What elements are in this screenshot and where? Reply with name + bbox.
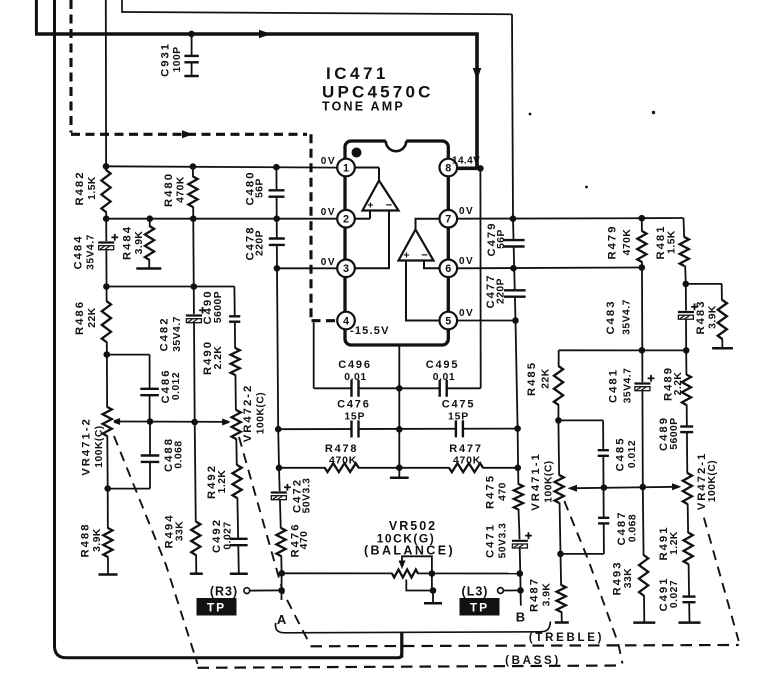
svg-text:0V: 0V: [321, 156, 336, 167]
svg-text:22K: 22K: [87, 307, 98, 327]
svg-text:C476: C476: [337, 399, 371, 411]
svg-text:1.2K: 1.2K: [669, 531, 680, 555]
wire: C490/R490/VR472-2/R492/C492 column: [234, 287, 238, 574]
op-amp U1a: [355, 167, 379, 169]
capacitor C490: [228, 316, 241, 322]
junction: right rail nodes: [639, 347, 646, 354]
svg-text:35V4.7: 35V4.7: [172, 316, 183, 352]
junction: pin5 row node: [512, 317, 519, 324]
svg-text:(BALANCE): (BALANCE): [364, 544, 455, 558]
svg-text:100K(C): 100K(C): [544, 460, 555, 502]
resistor R481: [678, 238, 691, 266]
potentiometer VR472-2: [230, 411, 243, 439]
capacitor C478: [268, 238, 286, 245]
svg-text:35V4.7: 35V4.7: [623, 368, 634, 404]
svg-text:0.068: 0.068: [174, 440, 185, 468]
svg-text:A: A: [277, 612, 287, 627]
svg-text:−: −: [386, 200, 392, 212]
wire: C496/C495 row: [314, 387, 481, 389]
capacitor C480: [268, 190, 286, 197]
svg-text:15P: 15P: [344, 412, 365, 423]
svg-text:3.9K: 3.9K: [708, 305, 719, 329]
svg-text:-15.5V: -15.5V: [350, 325, 390, 337]
potentiometer VR471-1: [553, 476, 566, 503]
svg-text:100K(C): 100K(C): [707, 460, 718, 502]
svg-text:4: 4: [343, 315, 349, 327]
resistor R482: [99, 171, 112, 212]
svg-text:R479: R479: [607, 224, 619, 259]
svg-text:35V4.7: 35V4.7: [86, 234, 97, 270]
junction: pin2 row nodes: [103, 215, 110, 222]
junction: balance row nodes: [279, 570, 286, 577]
svg-text:B: B: [516, 610, 525, 625]
svg-text:470K: 470K: [176, 176, 187, 203]
svg-text:470: 470: [498, 482, 509, 501]
potentiometer VR502: [393, 568, 418, 580]
junction: pin6 row nodes: [510, 265, 517, 272]
svg-text:470: 470: [299, 531, 310, 550]
svg-text:C481: C481: [608, 368, 620, 403]
resistor R489: [680, 375, 693, 405]
junction: wiper row nodes: [147, 418, 154, 425]
wire: center column from IC: [398, 345, 400, 478]
resistor R493: [637, 556, 650, 596]
ground VR502: [424, 602, 442, 605]
svg-text:470K: 470K: [329, 456, 357, 467]
svg-text:50V3.3: 50V3.3: [498, 523, 509, 559]
op-amp U1b: [416, 219, 441, 230]
wire: C487 return row: [561, 553, 604, 555]
svg-text:1.2K: 1.2K: [217, 470, 228, 494]
wire: VR471-2/VR472-2 wiper row: [119, 421, 228, 423]
resistor R480: [186, 177, 199, 207]
junction: test point nodes: [278, 587, 285, 594]
svg-text:100K(C): 100K(C): [94, 425, 105, 467]
svg-text:C471: C471: [485, 523, 497, 558]
svg-text:0.068: 0.068: [628, 514, 639, 542]
IC471 body: [345, 141, 448, 345]
svg-text:2.2K: 2.2K: [213, 346, 224, 370]
junction: C496/C495 row node: [396, 385, 403, 392]
svg-text:0.01: 0.01: [433, 372, 456, 383]
svg-text:−: −: [421, 250, 427, 262]
svg-text:0V: 0V: [459, 308, 474, 319]
svg-text:R477: R477: [449, 443, 483, 455]
wire: A-B link line: [275, 622, 550, 633]
svg-text:(L3): (L3): [462, 585, 489, 599]
junction: pin1 row nodes: [103, 163, 110, 170]
svg-text:1.5K: 1.5K: [87, 176, 98, 200]
capacitor C492: [229, 539, 249, 546]
svg-text:14.4V: 14.4V: [452, 156, 480, 167]
svg-text:IC471: IC471: [326, 64, 389, 83]
capacitor C476: [351, 420, 359, 439]
wire: pin5 row: [457, 320, 516, 322]
svg-text:R481: R481: [655, 224, 667, 259]
dashed BASS bus: [198, 666, 622, 668]
svg-text:100K(C): 100K(C): [256, 392, 267, 434]
junction: right wiper row nodes: [555, 417, 562, 424]
wire: stub joining board edge: [400, 632, 403, 658]
svg-text:0.012: 0.012: [627, 440, 638, 468]
svg-text:22K: 22K: [541, 368, 552, 388]
capacitor C483 (electrolytic): [677, 311, 695, 320]
svg-text:R485: R485: [526, 361, 538, 396]
capacitor C488: [140, 455, 161, 462]
svg-text:VR471-2: VR471-2: [81, 417, 93, 476]
capacitor C481 (electrolytic): [633, 382, 651, 391]
resistor R488: [101, 529, 114, 557]
junction: pin7 row nodes: [510, 215, 517, 222]
wire: R480/C482/R494 column: [193, 167, 196, 574]
svg-text:220P: 220P: [496, 278, 507, 304]
capacitor C472 (electrolytic): [270, 491, 288, 500]
resistor R487: [555, 586, 568, 612]
wire: R485/VR471-1/R487 column: [558, 350, 561, 622]
capacitor C486: [139, 389, 160, 396]
capacitor C491: [682, 596, 697, 602]
svg-text:R487: R487: [529, 577, 541, 612]
svg-text:1.5K: 1.5K: [667, 230, 678, 254]
svg-text:35V4.7: 35V4.7: [622, 299, 633, 335]
wire: left board edge with rounded bottom: [55, 0, 402, 658]
svg-text:6: 6: [445, 263, 451, 275]
arrow on shield line: [182, 130, 193, 138]
svg-text:C492: C492: [211, 518, 223, 553]
capacitor C495: [439, 379, 447, 398]
capacitor C475: [456, 419, 464, 438]
resistor R490: [229, 349, 242, 375]
svg-text:TP: TP: [470, 601, 489, 615]
shield dashed line: [69, 0, 72, 133]
svg-text:R478: R478: [325, 443, 359, 455]
node 14.4V junction: [477, 165, 484, 172]
svg-text:R482: R482: [74, 170, 86, 205]
svg-text:3.9K: 3.9K: [134, 231, 145, 255]
svg-text:R486: R486: [74, 300, 86, 335]
svg-text:2: 2: [343, 214, 349, 226]
VR502 wiper + tap: [402, 556, 432, 590]
resistor R477: [450, 461, 483, 474]
capacitor C471 (electrolytic): [511, 539, 529, 548]
resistor R479: [635, 232, 648, 262]
svg-text:R493: R493: [612, 560, 624, 595]
svg-text:0V: 0V: [321, 207, 336, 218]
svg-text:TP: TP: [207, 601, 226, 615]
svg-text:1: 1: [343, 162, 349, 174]
svg-text:(TREBLE): (TREBLE): [529, 632, 604, 644]
svg-text:5600P: 5600P: [213, 291, 224, 323]
svg-text:0V: 0V: [459, 206, 474, 217]
wire: row y=354.6: [107, 354, 150, 356]
wire: long right vertical: [512, 14, 521, 605]
resistor R491: [682, 533, 695, 564]
wire: pin2 row: [106, 218, 337, 220]
svg-text:C483: C483: [605, 299, 617, 334]
svg-text:(R3): (R3): [210, 585, 238, 599]
svg-text:(BASS): (BASS): [505, 655, 561, 667]
capacitor C484 (electrolytic): [97, 241, 115, 250]
wire: right wiper row: [576, 487, 677, 488]
junction: R478/R477 row nodes: [276, 465, 283, 472]
svg-text:+: +: [367, 200, 373, 212]
capacitor C489: [679, 426, 694, 432]
wire: top-left vertical: [35, 0, 38, 33]
potentiometer VR471-2: [101, 408, 114, 436]
svg-text:5600P: 5600P: [669, 417, 680, 449]
wire: riser x=480 from 14.4V to C495 row: [479, 169, 481, 389]
svg-text:0V: 0V: [321, 257, 336, 268]
wire: C486 branch column: [149, 355, 151, 422]
svg-text:3: 3: [343, 263, 349, 275]
svg-text:0.012: 0.012: [171, 372, 182, 400]
dashed TREBLE bus: [311, 645, 739, 646]
resistor R484: [148, 219, 151, 269]
wire: C476/C475 row: [278, 428, 517, 431]
capacitor C496: [351, 379, 359, 398]
svg-text:15P: 15P: [448, 412, 469, 423]
svg-text:33K: 33K: [623, 568, 634, 588]
resistor R485: [552, 367, 565, 405]
wire: pin6 row: [457, 267, 642, 270]
svg-text:100P: 100P: [172, 46, 183, 72]
wire: pin7 row: [457, 217, 642, 220]
svg-text:C484: C484: [73, 234, 85, 269]
wire: R478/R477 row: [279, 467, 518, 469]
svg-text:56P: 56P: [496, 229, 507, 249]
svg-text:0V: 0V: [459, 256, 474, 267]
wire: R481/C483/R489/VR472-1/R491/C491 column: [684, 218, 690, 623]
svg-text:7: 7: [445, 214, 451, 226]
svg-text:C496: C496: [338, 359, 372, 371]
resistor R483: [721, 284, 724, 348]
svg-text:3.9K: 3.9K: [92, 528, 103, 552]
wire: pin3 row segment: [277, 267, 338, 269]
svg-text:C475: C475: [442, 399, 476, 411]
wire: C485 rail: [558, 419, 603, 421]
svg-text:50V3.3: 50V3.3: [302, 478, 313, 514]
wire: C485/C487 column: [602, 420, 605, 554]
wire: C488 branch column: [149, 422, 151, 489]
IC index dot: [352, 148, 362, 158]
svg-text:5: 5: [445, 315, 451, 327]
wire: R483 branch row: [686, 283, 722, 285]
svg-text:R475: R475: [485, 474, 497, 509]
capacitor C479: [513, 219, 516, 269]
svg-text:C485: C485: [615, 436, 627, 471]
wire: thin top line from x=122: [122, 0, 512, 14]
wire: VR502 row: [282, 572, 520, 574]
svg-text:33K: 33K: [175, 521, 186, 541]
resistor R486: [100, 302, 113, 342]
capacitor C487: [597, 518, 610, 524]
svg-text:VR472-2: VR472-2: [242, 384, 254, 443]
junction: VR502 tap nodes: [429, 570, 436, 577]
svg-text:C931: C931: [160, 42, 172, 77]
wire: main left vertical column: [106, 0, 108, 575]
svg-text:0.01: 0.01: [344, 372, 367, 383]
svg-text:VR471-1: VR471-1: [530, 452, 542, 511]
svg-text:C487: C487: [616, 510, 628, 545]
junction: pin3 row node: [274, 265, 281, 272]
resistor R475: [512, 485, 525, 510]
svg-text:R483: R483: [695, 299, 707, 334]
capacitor C477: [503, 290, 527, 297]
mechanical link VR471-2: [114, 436, 198, 664]
wire: R479/C481/R493 column: [642, 218, 645, 622]
svg-text:0.027: 0.027: [223, 521, 234, 549]
wire: riser x=313: [313, 323, 315, 389]
svg-text:+: +: [403, 250, 409, 262]
svg-text:470K: 470K: [453, 456, 481, 467]
resistor R492: [231, 466, 244, 498]
svg-text:8: 8: [445, 162, 451, 174]
capacitor C931: [188, 31, 195, 38]
svg-text:470K: 470K: [622, 229, 633, 256]
wire: pin7 row extension to R481: [642, 217, 684, 219]
svg-text:220P: 220P: [255, 230, 266, 256]
wire: C480/C478/C472/R476 column: [276, 167, 281, 600]
resistor R494: [189, 522, 202, 555]
mechanical link VR472-2: [239, 437, 311, 645]
svg-text:2.2K: 2.2K: [673, 372, 684, 396]
svg-text:R484: R484: [122, 225, 134, 260]
svg-text:C482: C482: [159, 316, 171, 351]
potentiometer VR472-1: [681, 474, 694, 504]
svg-text:3.9K: 3.9K: [542, 583, 553, 607]
resistor R478: [325, 461, 358, 474]
junction: left feedback rows: [103, 283, 110, 290]
IC pins: [337, 159, 355, 177]
scan specks: [529, 113, 532, 116]
wire: rail y=350: [559, 349, 687, 351]
svg-text:R480: R480: [163, 172, 175, 207]
svg-text:C495: C495: [426, 359, 460, 371]
svg-text:0.027: 0.027: [669, 580, 680, 608]
resistor R476: [274, 529, 287, 556]
wire: pin1 row: [106, 166, 338, 167]
svg-text:56P: 56P: [255, 178, 266, 198]
capacitor C482 (electrolytic): [185, 314, 203, 323]
mechanical link VR471-1: [564, 501, 622, 664]
junction: C476/C475 row nodes: [275, 426, 282, 433]
IC notch: [386, 139, 406, 151]
svg-text:TONE AMP: TONE AMP: [322, 100, 405, 114]
capacitor C485: [597, 450, 610, 456]
svg-text:R488: R488: [80, 522, 92, 557]
mechanical link VR472-1: [704, 518, 739, 641]
wire: thick top rail to pin 8: [35, 34, 477, 168]
wire: row y=286.5: [106, 286, 234, 288]
